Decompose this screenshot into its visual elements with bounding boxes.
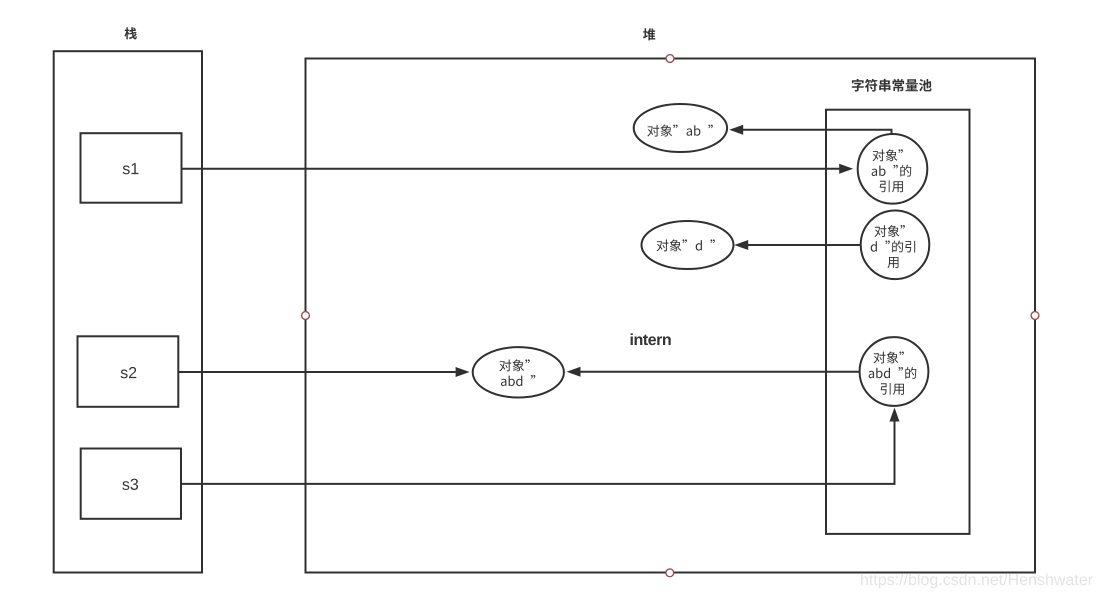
wire intern: abd-reference to abd object ellipse bbox=[567, 367, 860, 377]
variable box s2 bbox=[78, 336, 179, 407]
label 堆 (heap) bbox=[643, 28, 655, 40]
node ellipse 对象"d" bbox=[642, 221, 734, 269]
wire d-reference to d object ellipse bbox=[734, 240, 860, 250]
heap container box 堆 bbox=[306, 59, 1036, 573]
label 栈 (stack) bbox=[125, 27, 137, 39]
selection handle right bbox=[1031, 312, 1039, 320]
selection handle left bbox=[302, 312, 310, 320]
node circle 对象"ab"的引用 bbox=[858, 134, 928, 204]
string constant pool box bbox=[826, 110, 970, 534]
node ellipse 对象"ab" bbox=[634, 104, 727, 152]
wire s1 to ab-reference circle bbox=[182, 164, 854, 174]
label 字符串常量池 (string constant pool) bbox=[852, 79, 932, 92]
node circle 对象"abd"的引用 bbox=[860, 337, 929, 406]
watermark url bbox=[861, 573, 1093, 588]
stack container box 栈 bbox=[54, 51, 202, 572]
wire s2 to abd object ellipse bbox=[178, 367, 469, 377]
selection handle top bbox=[666, 55, 674, 63]
node circle 对象"d"的引用 bbox=[861, 211, 930, 280]
label intern bbox=[631, 333, 671, 345]
wire ab-reference to ab object ellipse bbox=[729, 125, 891, 136]
selection handle bottom bbox=[666, 569, 674, 577]
node ellipse 对象"abd" bbox=[473, 347, 564, 397]
variable box s3 bbox=[81, 449, 181, 519]
wire s3 to abd-reference circle bbox=[181, 408, 900, 484]
variable box s1 bbox=[81, 133, 182, 203]
